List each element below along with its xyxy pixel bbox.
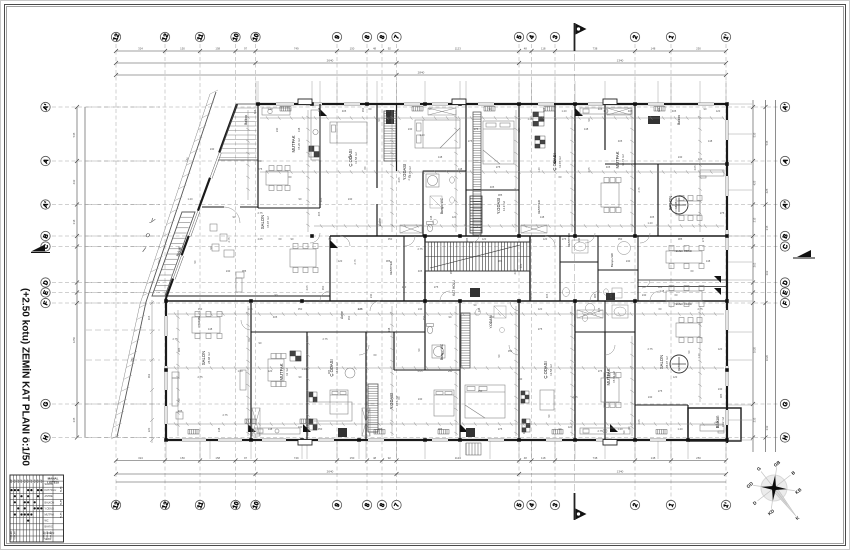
checkered shaft 3 [521,391,529,403]
dimension extension lines bottom [166,441,726,459]
svg-text:385: 385 [498,193,503,197]
svg-text:749: 749 [294,456,299,460]
svg-text:2.75: 2.75 [197,375,203,379]
svg-text:405: 405 [672,109,677,113]
svg-text:118: 118 [541,46,546,50]
svg-text:318: 318 [72,219,76,224]
interior vertical walls lower rooms [251,301,688,440]
interior wall lower y405 [635,404,688,406]
svg-text:405: 405 [609,293,613,298]
grid axis line H [52,437,779,439]
grid axis line 4 [531,44,533,500]
svg-text:1.20: 1.20 [419,133,425,137]
svg-text:MUTFAK: MUTFAK [606,368,611,385]
svg-text:4.05: 4.05 [257,237,263,241]
svg-text:1.20: 1.20 [187,197,193,201]
balcony bottom right [688,408,741,441]
interior wall salon bottom upper-left [166,295,330,297]
svg-text:1.20: 1.20 [267,107,273,111]
furniture dining right apartments upper [666,246,704,269]
svg-text:2.75: 2.75 [647,347,653,351]
room label Ç.ODASI [348,149,358,166]
svg-text:148: 148 [438,155,443,159]
svg-text:1250: 1250 [72,336,76,343]
svg-text:385: 385 [386,259,391,263]
svg-text:15.97 m2: 15.97 m2 [266,216,270,228]
svg-text:405: 405 [273,315,278,319]
grid axis line 5 [518,44,520,500]
chimney bump bottom 1 [298,440,312,446]
grid axis line C [52,246,779,248]
grid bubble 1' bottom [721,500,731,509]
svg-text:148: 148 [268,427,273,431]
room label MUTFAK [615,151,625,168]
svg-text:Balkon: Balkon [244,115,248,125]
svg-text:1020: 1020 [753,346,757,353]
furniture dining lower-right salon [676,318,702,343]
room label Y.ODASI [389,393,399,409]
svg-text:MUTFAK: MUTFAK [615,151,620,168]
svg-text:TOPLAM: TOPLAM [50,531,53,540]
svg-text:KAT: KAT [33,478,36,483]
windows right wall [725,120,729,425]
road label YOL [141,214,157,254]
right dimension line 1 [752,100,754,452]
grid bubble 8 bottom [362,500,371,509]
furniture bed lower child [330,390,348,414]
bath fixtures lower middle [476,306,506,333]
road dimension numbers [129,156,189,362]
furniture bed lower mid y-odasi [465,385,505,418]
svg-text:150: 150 [350,456,355,460]
chimney bump top 2 [452,99,466,105]
grid axis line 1 [670,44,672,500]
room label Ç.ODASI [329,359,339,376]
svg-text:1.20: 1.20 [517,127,521,133]
svg-text:TOPLAM: TOPLAM [43,531,46,540]
grid bubble 7 top [392,32,401,41]
svg-text:350: 350 [449,269,453,274]
grid bubble E right [780,288,789,297]
shaft bottom2 [466,428,475,437]
svg-text:333: 333 [753,417,757,422]
svg-text:324: 324 [138,456,143,460]
svg-text:148: 148 [706,259,711,263]
svg-text:220: 220 [147,427,151,432]
svg-text:KAT: KAT [30,478,33,483]
svg-text:275: 275 [720,211,725,215]
furniture table lower mid [540,390,554,410]
right dimension line 2 [765,100,767,452]
checkered shaft 5 [533,112,544,126]
svg-text:749: 749 [294,46,299,50]
svg-text:148: 148 [217,427,221,432]
svg-text:275: 275 [562,237,567,241]
grid bubble 12 bottom [160,500,170,510]
shaft center-right [606,293,615,300]
checkered kitchen counter upper-left [309,146,319,157]
room label KAT HOLU [452,279,456,295]
bath fixtures upper middle [430,196,454,225]
svg-text:333: 333 [765,425,769,430]
passage lines right apartments [638,279,727,281]
furniture sofa lower-right salon [700,425,724,433]
svg-text:148: 148 [651,456,656,460]
svg-text:240: 240 [718,387,723,391]
right dimension line 3 [775,100,777,452]
room label Y.ODASI [489,315,493,328]
svg-text:385: 385 [522,429,526,434]
windows top wall [276,102,714,106]
furniture column circle upper-right salon [670,196,688,214]
grid axis line A' [52,204,779,206]
svg-text:4.05: 4.05 [587,167,591,173]
svg-text:350: 350 [478,389,483,393]
furniture sofa lower-left salon [172,372,179,406]
svg-text:385: 385 [719,393,723,398]
svg-text:545: 545 [72,132,76,137]
svg-text:1340: 1340 [617,58,624,62]
grid axis line 9 [336,44,338,500]
hatched shaft strip center lower [461,313,470,368]
furniture dining set upper-left kitchen [266,166,290,191]
grid bubble 11 bottom [195,500,205,509]
svg-text:240: 240 [408,127,413,131]
interior wall corridor bottom [166,300,727,302]
svg-text:Y.ODASI: Y.ODASI [496,198,501,214]
svg-text:148: 148 [387,327,391,332]
room label Antre [378,218,382,226]
svg-text:1.20: 1.20 [697,353,701,359]
grid axis line E [52,292,779,294]
svg-text:ALAN: ALAN [60,499,63,505]
svg-text:TOPLAM: TOPLAM [10,531,13,540]
svg-text:97: 97 [244,456,248,460]
grid bubble E left [41,288,50,297]
svg-text:148: 148 [208,327,213,331]
svg-text:13.58 m2: 13.58 m2 [549,364,553,376]
interior wall lower y332 [251,331,425,333]
furniture dining upper-right kitchen [601,178,621,213]
svg-text:4.05: 4.05 [397,177,401,183]
svg-text:350: 350 [318,427,323,431]
furniture desk lower child room [314,368,355,421]
svg-text:385: 385 [678,237,683,241]
windows left wall [164,316,168,424]
grid bubble 1 bottom [666,500,675,509]
svg-text:240: 240 [348,197,353,201]
grid bubble A' right [780,102,790,111]
svg-text:92: 92 [388,46,392,50]
svg-text:MUTFAK: MUTFAK [279,363,284,380]
svg-text:1.20: 1.20 [301,367,307,371]
svg-text:120: 120 [718,347,723,351]
svg-text:1.20: 1.20 [561,109,567,113]
svg-text:Ç.ODASI: Ç.ODASI [552,153,557,170]
svg-text:425: 425 [765,188,769,193]
svg-text:SALON: SALON [668,196,673,210]
svg-text:350: 350 [618,237,623,241]
svg-text:2.75: 2.75 [322,337,328,341]
compass needle gray [772,486,798,518]
svg-text:1.20: 1.20 [527,117,533,121]
svg-text:97: 97 [244,46,248,50]
svg-text:KAT: KAT [20,478,23,483]
svg-text:240: 240 [648,395,653,399]
svg-text:120: 120 [543,237,548,241]
svg-text:2.75: 2.75 [257,211,263,215]
grid bubble A' right [780,200,790,209]
svg-text:18.97 m2: 18.97 m2 [665,356,669,368]
svg-text:240: 240 [626,259,631,263]
svg-text:405: 405 [519,263,523,268]
furniture wc upper bath [427,222,434,232]
svg-text:SALON: SALON [45,483,53,486]
room label Banyo+WC [440,197,444,214]
svg-text:240: 240 [226,269,231,273]
furniture dining lower-left salon [192,312,222,339]
interior wall upper y208 [258,207,320,209]
svg-text:KAT: KAT [37,478,40,483]
section flag top [575,23,587,51]
furniture bath cluster lower right-middle [582,304,628,322]
grid bubble C left [41,242,51,251]
svg-text:MUTFAK: MUTFAK [291,135,296,152]
room label VESTIYER [567,233,571,247]
svg-text:KAT: KAT [10,478,13,483]
svg-text:535: 535 [753,132,757,137]
svg-text:15.74 m2: 15.74 m2 [612,371,616,383]
grid bubble 12 bottom [111,500,121,510]
grid bubble 10 bottom [251,500,261,510]
grid axis line 10 [235,44,237,500]
svg-text:350: 350 [388,237,393,241]
svg-text:335: 335 [72,417,76,422]
room label MUTFAK [291,135,301,152]
svg-text:ANTRE: ANTRE [45,495,54,498]
svg-text:118: 118 [541,456,546,460]
room list header rotated labels [10,478,43,483]
grid axis line 8 [366,44,368,500]
svg-text:2.75: 2.75 [222,413,228,417]
grid bubble A right [780,156,790,165]
extra door arcs corridor [340,236,650,311]
grid axis line F [52,302,779,304]
svg-text:ALAN: ALAN [60,486,63,492]
bottom dimension line 1 [116,460,726,462]
svg-text:48: 48 [524,456,528,460]
grid bubble 3 bottom [550,500,559,509]
svg-text:275: 275 [468,139,473,143]
svg-text:OTURMA: OTURMA [197,316,201,328]
furniture tv lower-left salon [240,370,246,390]
svg-text:362: 362 [765,270,769,275]
grid bubble B right [780,231,790,240]
furniture bed upper mid [483,121,514,164]
svg-text:48: 48 [373,456,377,460]
grid bubble 3 top [550,32,559,41]
room label Y.ODASI [402,164,412,180]
svg-text:350: 350 [361,107,365,112]
shaft center [470,288,480,297]
svg-text:275: 275 [348,155,353,159]
furniture bed upper child room [330,122,367,143]
svg-text:4.05: 4.05 [637,419,641,425]
svg-text:362: 362 [147,373,151,378]
furniture dining lower-left kitchen [268,354,286,387]
bath cluster walls right-middle [560,236,638,301]
checkered kitchen counter lower-left [290,351,301,361]
grid bubble H left [41,433,51,442]
grade marker right [797,250,811,257]
grid bubble 12 top [111,32,121,42]
svg-text:350: 350 [198,307,203,311]
grid bubble 1 top [666,32,675,41]
right dimension numbers [753,132,770,430]
grid bubble A' left [41,200,51,209]
room list table dots [11,489,43,522]
staircase upper small [470,196,482,233]
furniture bed lower y-odasi [434,390,454,416]
furniture dining set upper-left salon [290,244,318,273]
furniture counter lower-right kitchen [580,428,630,434]
grid axis line 2 [634,44,636,500]
room list table [10,475,64,542]
room label SALON [668,196,678,210]
compass rose [746,459,804,521]
interior dimension chains horizontal [168,116,725,426]
svg-text:Banyo+WC: Banyo+WC [440,343,444,360]
grid bubble 10 top [231,32,241,42]
grid bubble 5 bottom [514,500,523,509]
svg-text:350: 350 [508,349,513,353]
svg-text:MUTFAK: MUTFAK [45,514,55,517]
interior vertical walls upper rooms [258,104,658,301]
svg-text:1.20: 1.20 [677,427,683,431]
svg-text:2.75: 2.75 [597,429,603,433]
svg-text:240: 240 [298,425,303,429]
svg-text:405: 405 [598,107,603,111]
svg-text:4.05: 4.05 [417,369,423,373]
svg-text:Ç.ODASI: Ç.ODASI [543,361,548,378]
svg-text:BALKON: BALKON [45,501,55,504]
door arcs [241,233,660,355]
grid bubble B left [41,231,51,240]
svg-text:Antre: Antre [378,218,382,226]
dimension extension lines top [256,81,726,103]
room label Banyo+WC [610,253,614,267]
svg-text:2.75: 2.75 [417,247,423,251]
compass black cross hands [761,475,787,501]
svg-text:BANYO: BANYO [45,526,54,529]
interior wall upper y164 [605,163,727,165]
svg-text:385: 385 [242,269,247,273]
dimension extension lines left [86,107,160,438]
svg-text:405: 405 [545,293,549,298]
svg-text:405: 405 [386,109,391,113]
svg-text:250: 250 [696,456,701,460]
section flag bottom [575,493,587,520]
svg-text:315: 315 [765,225,769,230]
svg-text:240: 240 [402,285,407,289]
svg-text:405: 405 [490,185,495,189]
svg-text:Balkon: Balkon [715,415,720,428]
svg-text:148: 148 [660,289,665,293]
svg-text:WC: WC [45,520,49,523]
corridor walls around stair [424,236,426,301]
grid bubble 4 bottom [527,500,536,509]
svg-text:1.20: 1.20 [237,369,243,373]
svg-text:240: 240 [448,369,453,373]
svg-text:4.05: 4.05 [529,293,533,299]
svg-text:385: 385 [465,237,469,242]
svg-text:KAT: KAT [14,478,17,483]
black door wedges [248,108,618,432]
shaft bottom [338,428,347,437]
svg-text:240: 240 [275,127,279,132]
tiny dimension annotations [172,107,724,434]
grid axis line 8 [381,44,383,500]
furniture dining lower-right kitchen [601,373,621,408]
room label Balkon [715,415,725,428]
svg-text:275: 275 [496,165,501,169]
room label Banyo+WC [440,343,444,360]
left dimension line 1 [76,107,78,438]
top dimension line 3 [116,74,726,76]
grid bubble 9 top [332,32,341,41]
svg-text:VESTIYER: VESTIYER [389,261,393,275]
compass thin rays [753,467,795,509]
svg-text:148: 148 [584,127,589,131]
svg-text:275: 275 [538,327,543,331]
svg-text:425: 425 [753,180,757,185]
svg-text:Antre: Antre [340,311,344,319]
road boundary parallel line [111,94,210,437]
balcony top-left hatch [218,108,256,158]
svg-text:120: 120 [358,307,363,311]
grid bubble F right [780,298,789,307]
grid bubble 1' top [721,32,731,41]
room label Y.ODASI [496,198,506,214]
svg-text:150: 150 [180,456,185,460]
svg-text:385: 385 [438,427,443,431]
svg-text:14.9 m2: 14.9 m2 [502,201,506,212]
svg-text:240: 240 [642,293,647,297]
building exterior wall left [165,298,167,440]
room label VESTIYER [389,261,393,275]
svg-text:YEMEK ODASI: YEMEK ODASI [674,302,692,306]
grid axis line 10 [255,44,257,500]
svg-text:(+2.50 kotu) ZEMİN KAT PLANI: (+2.50 kotu) ZEMİN KAT PLANI ö:1/50 [20,288,33,466]
svg-text:YEMEK ODASI: YEMEK ODASI [674,249,692,253]
svg-text:158: 158 [215,456,220,460]
grid bubble F left [41,298,50,307]
grid axis line A' [52,106,779,108]
grid bubble C right [780,242,790,251]
compass direction labels [746,459,804,521]
svg-text:148: 148 [540,215,545,219]
road boundary hatching [111,90,218,439]
grid bubble D left [41,278,51,287]
svg-text:2.75: 2.75 [637,187,641,193]
svg-text:1020: 1020 [765,354,769,361]
svg-text:324: 324 [138,46,143,50]
bath fixtures right-middle [563,240,631,298]
svg-text:TOPLAM: TOPLAM [14,531,17,540]
grid bubble 11 top [195,32,205,41]
svg-text:Y.ODASI: Y.ODASI [45,507,55,510]
svg-text:275: 275 [258,167,263,171]
